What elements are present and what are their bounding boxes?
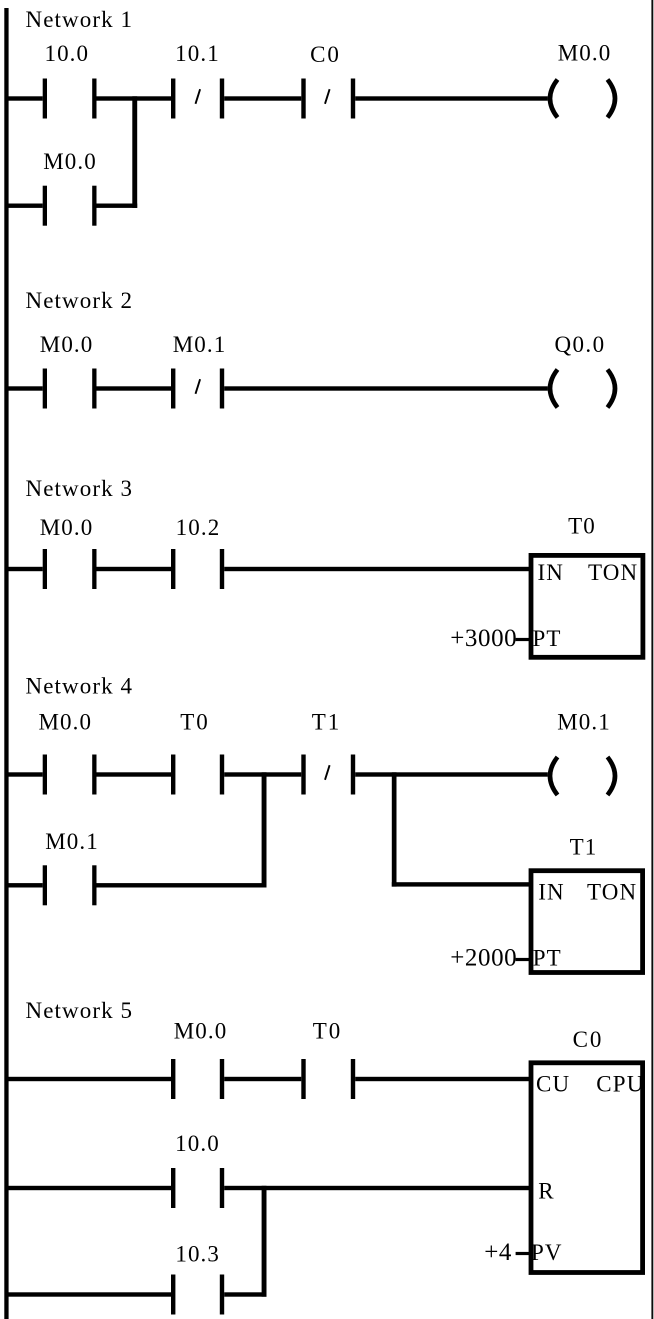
contact T0 (NO) xyxy=(301,1059,355,1099)
counter box C0 (CPU) xyxy=(531,1063,645,1273)
svg-text:PT: PT xyxy=(533,946,562,971)
svg-text:M0.0: M0.0 xyxy=(40,515,94,540)
svg-text:+3000: +3000 xyxy=(450,625,517,652)
svg-text:Q0.0: Q0.0 xyxy=(555,332,606,357)
coil M0.0 xyxy=(550,80,615,118)
svg-text:T1: T1 xyxy=(312,710,342,735)
svg-text:Network 5: Network 5 xyxy=(26,998,134,1023)
svg-text:Network 2: Network 2 xyxy=(26,288,134,313)
svg-text:R: R xyxy=(538,1179,554,1204)
contact T1 (NC) xyxy=(301,755,355,795)
wire rail to contact M0.0 xyxy=(8,1077,171,1081)
wire rail to branch contact M0.1 xyxy=(8,883,43,887)
svg-text:T0: T0 xyxy=(313,1019,343,1044)
svg-text:M0.1: M0.1 xyxy=(557,710,611,735)
svg-text:Network 3: Network 3 xyxy=(26,476,134,501)
svg-text:M0.0: M0.0 xyxy=(174,1019,228,1044)
contact 10.0 (NO) xyxy=(43,79,97,119)
contact M0.0 (NO) xyxy=(43,755,97,795)
svg-text:10.0: 10.0 xyxy=(175,1131,220,1156)
contact 10.1 (NC) xyxy=(171,79,224,119)
wire contact M0.0 to contact M0.1 xyxy=(97,386,172,390)
contact 10.0 (NO) xyxy=(171,1168,224,1208)
wire contact 10.1 to contact C0 xyxy=(224,96,301,100)
svg-text:C0: C0 xyxy=(310,42,341,67)
contact 10.2 (NO) xyxy=(171,549,224,589)
contact M0.0 (NO) xyxy=(43,549,97,589)
wire contact 10.0 to contact 10.1 xyxy=(97,96,172,100)
svg-text:T0: T0 xyxy=(180,710,210,735)
svg-text:IN: IN xyxy=(538,880,564,905)
svg-text:TON: TON xyxy=(587,880,637,905)
svg-text:M0.0: M0.0 xyxy=(38,710,92,735)
wire junction to timer T1 IN pin xyxy=(392,882,531,886)
wire rail to contact M0.0 xyxy=(8,386,43,390)
svg-text:IN: IN xyxy=(538,560,564,585)
svg-text:10.1: 10.1 xyxy=(175,41,220,66)
wire rail to contact 10.3 xyxy=(8,1292,171,1296)
contact T0 (NO) xyxy=(171,755,224,795)
wire contact T0 to contact T1 xyxy=(224,772,301,776)
contact C0 (NC) xyxy=(301,79,355,119)
svg-text:CPU: CPU xyxy=(596,1072,644,1097)
svg-text:Network 1: Network 1 xyxy=(26,7,134,32)
svg-text:CU: CU xyxy=(536,1072,570,1097)
wire rail to contact M0.0 xyxy=(8,567,43,571)
svg-text:M0.0: M0.0 xyxy=(558,41,612,66)
contact M0.0 (NO) xyxy=(43,369,97,409)
timer box T1 (TON) xyxy=(531,871,643,973)
svg-text:PT: PT xyxy=(533,626,562,651)
wire +3000 to PT pin xyxy=(516,638,532,641)
left power rail xyxy=(4,8,8,1319)
svg-text:M0.0: M0.0 xyxy=(43,149,97,174)
wire rail to contact 10.0 xyxy=(8,1186,171,1190)
wire rail to contact M0.0 xyxy=(8,772,43,776)
wire contact 10.2 to timer T0 IN pin xyxy=(224,567,531,571)
contact M0.1 (NO, parallel branch) xyxy=(43,865,97,905)
wire contact 10.3 to junction vertical xyxy=(224,1292,266,1296)
svg-text:T1: T1 xyxy=(570,835,598,860)
junction vertical to parallel branch xyxy=(132,96,137,208)
wire rail to branch contact M0.0 xyxy=(8,204,43,208)
svg-text:PV: PV xyxy=(531,1240,563,1265)
svg-text:+2000: +2000 xyxy=(450,945,517,972)
contact 10.3 (NO) xyxy=(171,1275,224,1315)
svg-text:M0.1: M0.1 xyxy=(173,332,227,357)
coil Q0.0 xyxy=(550,370,615,408)
wire contact T0 to counter C0 CU pin xyxy=(355,1077,531,1081)
contact M0.0 (NO) xyxy=(171,1059,224,1099)
wire contact M0.0 to contact T0 xyxy=(224,1077,301,1081)
svg-text:C0: C0 xyxy=(573,1027,604,1052)
svg-text:+4: +4 xyxy=(484,1239,512,1266)
wire branch contact to junction vertical xyxy=(97,204,138,208)
right border line xyxy=(651,0,653,1319)
svg-text:10.0: 10.0 xyxy=(44,41,89,66)
svg-text:M0.1: M0.1 xyxy=(45,829,99,854)
wire contact M0.1 to coil Q0.0 xyxy=(224,386,548,390)
svg-text:10.2: 10.2 xyxy=(176,515,221,540)
wire +2000 to PT pin xyxy=(516,958,532,961)
wire branch contact M0.1 to junction vertical xyxy=(97,883,267,887)
wire contact C0 to coil M0.0 xyxy=(355,96,548,100)
wire contact M0.0 to contact T0 xyxy=(97,772,172,776)
junction vertical 10.3 branch xyxy=(262,1186,267,1297)
wire contact T1 to coil M0.1 xyxy=(355,772,548,776)
svg-text:10.3: 10.3 xyxy=(175,1242,220,1267)
wire rail to contact 10.0 xyxy=(8,96,43,100)
junction vertical to parallel branch M0.1 xyxy=(262,772,267,887)
contact M0.0 (NO, parallel branch) xyxy=(43,186,97,226)
wire contact 10.0 to counter C0 R pin xyxy=(224,1186,531,1190)
svg-text:T0: T0 xyxy=(568,514,596,539)
timer box T0 (TON) xyxy=(531,555,643,657)
wire +4 to PV pin xyxy=(516,1252,532,1255)
wire contact M0.0 to contact 10.2 xyxy=(97,567,172,571)
junction vertical to timer T1 branch xyxy=(392,772,397,886)
coil M0.1 xyxy=(550,757,615,795)
svg-text:M0.0: M0.0 xyxy=(40,332,94,357)
svg-text:TON: TON xyxy=(588,560,638,585)
contact M0.1 (NC) xyxy=(171,369,224,409)
svg-text:Network 4: Network 4 xyxy=(26,674,134,699)
